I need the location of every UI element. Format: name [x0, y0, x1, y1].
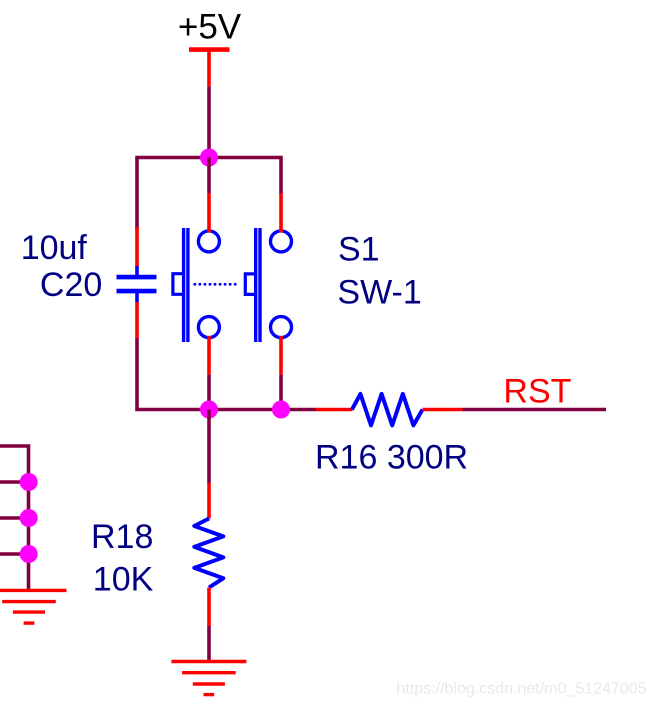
connector P1 pin wire 1 — [0, 480, 29, 484]
node B junction dot — [200, 401, 218, 419]
switch S1 right contact bar — [256, 228, 260, 342]
ground symbol left connector — [0, 590, 67, 623]
pin stub R16 left — [316, 408, 353, 412]
node E junction dot — [20, 509, 38, 527]
wire from +5V to node A — [207, 86, 211, 157]
node A junction dot — [200, 149, 218, 167]
wire S1 pin4 to node C — [279, 375, 283, 410]
svg-text:SW-1: SW-1 — [337, 273, 421, 311]
node F junction dot — [20, 545, 38, 563]
connector P1 bus wire — [0, 446, 29, 590]
wire middle stub to switch pin 1 — [207, 158, 211, 194]
power +5V label — [178, 7, 242, 46]
label C20 value 10uf — [21, 229, 88, 267]
label R18 value 10K — [93, 561, 154, 599]
net label RST — [503, 373, 571, 411]
svg-text:10K: 10K — [93, 561, 154, 599]
wire S1 pin2 to node B — [207, 375, 211, 410]
switch S1 pin 3 circle — [271, 231, 292, 252]
switch S1 actuator dotted link — [195, 283, 240, 286]
svg-text:+5V: +5V — [178, 7, 242, 46]
pin stub R18 top — [207, 483, 211, 519]
label S1 designator — [338, 230, 380, 268]
connector P1 pin wire 2 — [0, 516, 29, 520]
switch S1 right actuator tab — [245, 274, 256, 295]
node D junction dot — [20, 473, 38, 491]
watermark — [397, 681, 647, 698]
switch S1 left actuator tab — [173, 274, 185, 295]
resistor R18 zigzag — [194, 519, 223, 588]
node C junction dot — [272, 401, 290, 419]
ground symbol under R18 — [171, 662, 246, 695]
pin stub S1 pin2 — [207, 336, 211, 375]
capacitor C20 plates — [117, 277, 157, 291]
pin stub R18 bottom — [207, 588, 211, 627]
pin stub S1 pin3 — [279, 193, 283, 233]
label S1 type SW-1 — [337, 273, 421, 311]
switch S1 pin 4 circle — [271, 317, 292, 338]
connector P1 pin wire 3 — [0, 552, 29, 556]
wire bottom horizontal from capacitor to R16 — [135, 338, 316, 410]
svg-text:S1: S1 — [338, 230, 380, 268]
power +5V bar symbol — [189, 50, 230, 87]
svg-text:https://blog.csdn.net/m0_51247: https://blog.csdn.net/m0_51247005 — [397, 681, 647, 698]
switch S1 pin 2 circle — [198, 317, 219, 338]
svg-text:R16 300R: R16 300R — [315, 438, 468, 476]
capacitor C20 bottom pin — [135, 293, 139, 338]
label R18 designator — [91, 518, 153, 556]
wire R16 to RST — [463, 408, 607, 412]
wire R18 to ground — [207, 626, 211, 661]
pin stub S1 pin4 — [279, 336, 283, 375]
svg-text:R18: R18 — [91, 518, 153, 556]
switch S1 pin 1 circle — [198, 231, 219, 252]
svg-text:10uf: 10uf — [21, 229, 88, 267]
pin stub R16 right — [423, 408, 463, 412]
pin stub S1 pin1 — [207, 193, 211, 233]
capacitor C20 top pin — [135, 227, 139, 275]
switch S1 left contact bar — [184, 228, 188, 342]
label R16 designator and value — [315, 438, 468, 476]
label C20 designator — [40, 266, 102, 304]
resistor R16 zigzag — [352, 394, 423, 426]
wire top horizontal branch — [135, 158, 283, 231]
svg-text:C20: C20 — [40, 266, 102, 304]
svg-text:RST: RST — [503, 373, 571, 411]
wire node B down to R18 — [207, 410, 211, 484]
